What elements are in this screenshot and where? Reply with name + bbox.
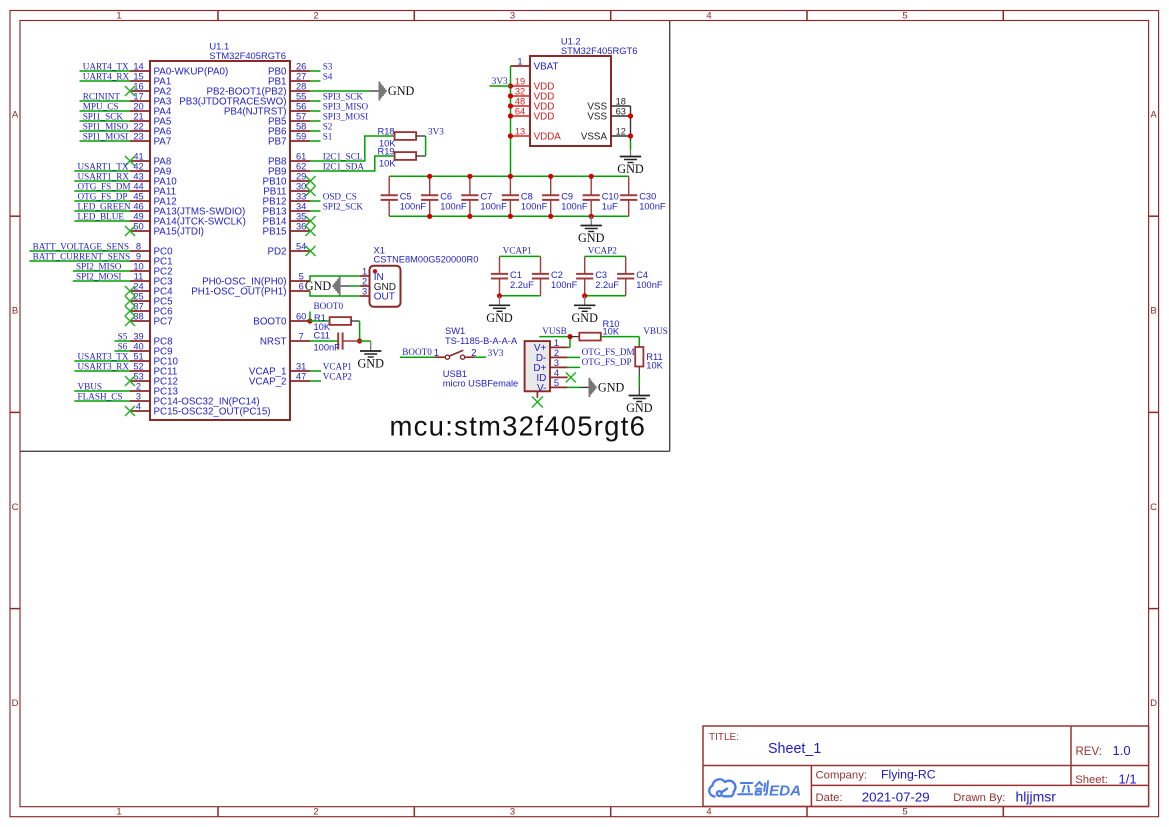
svg-text:42: 42 — [133, 161, 143, 171]
svg-text:C3: C3 — [595, 270, 607, 280]
svg-text:2: 2 — [136, 381, 141, 391]
svg-text:19: 19 — [515, 76, 525, 86]
svg-text:GND: GND — [305, 279, 332, 293]
svg-text:GND: GND — [571, 311, 598, 325]
svg-text:7: 7 — [299, 331, 304, 341]
svg-text:56: 56 — [296, 101, 306, 111]
svg-text:PB15: PB15 — [263, 226, 288, 237]
svg-text:100nF: 100nF — [314, 343, 341, 353]
svg-text:USART1_TX: USART1_TX — [78, 161, 129, 171]
svg-text:5: 5 — [554, 378, 559, 388]
svg-text:3V3: 3V3 — [428, 126, 444, 136]
svg-text:D: D — [1150, 698, 1157, 709]
svg-text:3: 3 — [362, 286, 367, 296]
svg-text:2.2uF: 2.2uF — [510, 280, 534, 290]
svg-text:SPI2_SCK: SPI2_SCK — [323, 201, 364, 211]
svg-text:Company:: Company: — [816, 769, 868, 781]
svg-text:54: 54 — [296, 241, 306, 251]
svg-text:1/1: 1/1 — [1119, 771, 1137, 786]
svg-text:52: 52 — [133, 361, 143, 371]
svg-text:S4: S4 — [323, 71, 333, 81]
svg-text:PC15-OSC32_OUT(PC15): PC15-OSC32_OUT(PC15) — [154, 406, 271, 417]
svg-text:STM32F405RGT6: STM32F405RGT6 — [209, 50, 286, 61]
svg-text:Sheet_1: Sheet_1 — [768, 741, 821, 757]
svg-text:C2: C2 — [551, 270, 563, 280]
svg-text:RCININT: RCININT — [83, 91, 121, 101]
svg-text:62: 62 — [296, 161, 306, 171]
svg-text:10: 10 — [133, 261, 143, 271]
svg-text:3: 3 — [554, 358, 559, 368]
svg-text:USART3_TX: USART3_TX — [78, 351, 129, 361]
svg-text:BATT_CURRENT_SENS: BATT_CURRENT_SENS — [33, 251, 131, 261]
svg-text:C10: C10 — [602, 191, 619, 201]
svg-text:21: 21 — [133, 111, 143, 121]
svg-text:PA15(JTDI): PA15(JTDI) — [154, 226, 204, 237]
svg-text:30: 30 — [296, 181, 306, 191]
svg-text:PA7: PA7 — [154, 136, 172, 147]
svg-text:GND: GND — [617, 162, 644, 176]
svg-text:A: A — [12, 109, 19, 120]
svg-text:11: 11 — [134, 271, 144, 281]
svg-text:28: 28 — [296, 81, 306, 91]
svg-text:SPI3_MISO: SPI3_MISO — [323, 101, 369, 111]
svg-text:OTG_FS_DM: OTG_FS_DM — [78, 181, 131, 191]
svg-text:S1: S1 — [323, 131, 333, 141]
svg-text:40: 40 — [133, 341, 143, 351]
svg-text:OTG_FS_DP: OTG_FS_DP — [582, 357, 632, 367]
svg-text:39: 39 — [133, 331, 143, 341]
svg-text:34: 34 — [296, 201, 306, 211]
svg-text:22: 22 — [133, 121, 143, 131]
svg-text:USB1: USB1 — [443, 369, 467, 379]
svg-text:47: 47 — [296, 371, 306, 381]
svg-text:27: 27 — [296, 71, 306, 81]
svg-text:36: 36 — [296, 221, 306, 231]
svg-text:REV:: REV: — [1076, 746, 1102, 758]
svg-text:17: 17 — [133, 91, 143, 101]
svg-text:48: 48 — [515, 96, 525, 106]
svg-text:PC7: PC7 — [154, 316, 173, 327]
svg-text:2.2uF: 2.2uF — [595, 280, 619, 290]
svg-text:6: 6 — [299, 281, 304, 291]
svg-text:VSS: VSS — [587, 111, 607, 122]
svg-text:26: 26 — [296, 61, 306, 71]
svg-text:SPI1_SCK: SPI1_SCK — [83, 111, 124, 121]
svg-text:3V3: 3V3 — [488, 348, 504, 358]
svg-text:BOOT0: BOOT0 — [253, 316, 287, 327]
svg-text:1: 1 — [554, 338, 559, 348]
svg-text:OTG_FS_DP: OTG_FS_DP — [78, 191, 128, 201]
svg-text:4: 4 — [706, 807, 711, 818]
svg-text:VBAT: VBAT — [534, 61, 559, 72]
svg-text:5: 5 — [299, 271, 304, 281]
svg-text:C: C — [1150, 502, 1157, 513]
svg-text:mcu:stm32f405rgt6: mcu:stm32f405rgt6 — [390, 410, 647, 441]
svg-text:15: 15 — [133, 71, 143, 81]
svg-text:46: 46 — [133, 201, 143, 211]
svg-text:VCAP_2: VCAP_2 — [249, 376, 287, 387]
svg-text:FLASH_CS: FLASH_CS — [78, 391, 123, 401]
svg-text:100nF: 100nF — [551, 280, 578, 290]
svg-text:SPI1_MOSI: SPI1_MOSI — [83, 131, 128, 141]
svg-text:3: 3 — [510, 10, 515, 21]
svg-text:57: 57 — [296, 111, 306, 121]
svg-text:OUT: OUT — [374, 291, 395, 302]
svg-text:I2C1_SCL: I2C1_SCL — [323, 151, 363, 161]
svg-text:59: 59 — [296, 131, 306, 141]
svg-text:C6: C6 — [440, 191, 452, 201]
svg-text:C4: C4 — [636, 270, 648, 280]
svg-text:GND: GND — [388, 84, 415, 98]
svg-text:2: 2 — [313, 807, 318, 818]
svg-text:2: 2 — [313, 10, 318, 21]
svg-text:5: 5 — [902, 807, 907, 818]
svg-text:2021-07-29: 2021-07-29 — [862, 789, 930, 804]
svg-text:5: 5 — [902, 10, 907, 21]
svg-text:VCAP1: VCAP1 — [323, 361, 353, 371]
svg-text:9: 9 — [136, 251, 141, 261]
svg-text:GND: GND — [578, 231, 605, 245]
svg-text:60: 60 — [296, 311, 306, 321]
svg-text:C9: C9 — [561, 191, 573, 201]
svg-text:I2C1_SDA: I2C1_SDA — [323, 161, 365, 171]
svg-text:43: 43 — [133, 171, 143, 181]
svg-text:C7: C7 — [480, 191, 492, 201]
svg-text:1: 1 — [116, 10, 121, 21]
svg-text:44: 44 — [133, 181, 143, 191]
svg-text:31: 31 — [296, 361, 306, 371]
svg-text:S3: S3 — [323, 61, 333, 71]
svg-text:33: 33 — [296, 191, 306, 201]
svg-text:1: 1 — [517, 56, 522, 66]
svg-text:58: 58 — [296, 121, 306, 131]
svg-text:SPI2_MOSI: SPI2_MOSI — [76, 271, 121, 281]
svg-text:V-: V- — [537, 383, 546, 394]
svg-text:UART4_TX: UART4_TX — [83, 61, 129, 71]
svg-text:63: 63 — [616, 106, 626, 116]
svg-text:1uF: 1uF — [602, 201, 618, 211]
svg-text:C: C — [12, 502, 19, 513]
svg-text:VBUS: VBUS — [78, 381, 103, 391]
svg-text:C11: C11 — [314, 331, 330, 341]
svg-text:61: 61 — [296, 151, 306, 161]
svg-text:A: A — [1150, 109, 1157, 120]
svg-text:S6: S6 — [118, 341, 128, 351]
svg-text:hljjmsr: hljjmsr — [1016, 788, 1057, 804]
svg-text:Drawn By:: Drawn By: — [953, 792, 1005, 804]
svg-text:USART3_RX: USART3_RX — [78, 361, 130, 371]
svg-text:OSD_CS: OSD_CS — [323, 191, 357, 201]
svg-text:12: 12 — [616, 126, 626, 136]
svg-text:100nF: 100nF — [636, 280, 663, 290]
svg-text:B: B — [1150, 305, 1156, 316]
svg-text:SPI2_MISO: SPI2_MISO — [76, 261, 122, 271]
svg-text:CSTNE8M00G520000R0: CSTNE8M00G520000R0 — [374, 255, 479, 265]
svg-text:35: 35 — [296, 211, 306, 221]
svg-text:C1: C1 — [510, 270, 522, 280]
svg-text:10K: 10K — [603, 326, 620, 336]
svg-text:GND: GND — [357, 357, 384, 371]
svg-text:64: 64 — [515, 106, 525, 116]
svg-text:R18: R18 — [378, 127, 395, 137]
svg-text:2: 2 — [362, 276, 367, 286]
svg-text:GND: GND — [486, 311, 513, 325]
svg-text:1.0: 1.0 — [1113, 743, 1131, 758]
svg-text:STM32F405RGT6: STM32F405RGT6 — [561, 45, 638, 56]
svg-text:BATT_VOLTAGE_SENS: BATT_VOLTAGE_SENS — [33, 241, 129, 251]
svg-text:BOOT0: BOOT0 — [314, 301, 344, 311]
svg-text:4: 4 — [554, 368, 559, 378]
svg-text:2: 2 — [554, 348, 559, 358]
svg-text:29: 29 — [296, 171, 306, 181]
svg-text:VCAP2: VCAP2 — [323, 371, 353, 381]
svg-text:100nF: 100nF — [480, 201, 507, 211]
svg-text:100nF: 100nF — [639, 201, 666, 211]
svg-text:VDDA: VDDA — [534, 131, 562, 142]
svg-text:100nF: 100nF — [400, 201, 427, 211]
svg-text:USART1_RX: USART1_RX — [78, 171, 130, 181]
svg-text:BOOT0: BOOT0 — [402, 347, 432, 357]
svg-text:100nF: 100nF — [521, 201, 548, 211]
svg-text:13: 13 — [515, 126, 525, 136]
svg-text:SPI3_SCK: SPI3_SCK — [323, 91, 364, 101]
svg-text:TITLE:: TITLE: — [709, 732, 739, 743]
svg-text:C30: C30 — [639, 191, 656, 201]
svg-text:23: 23 — [133, 131, 143, 141]
svg-text:R19: R19 — [378, 147, 395, 157]
svg-text:PD2: PD2 — [267, 246, 286, 257]
svg-text:3V3: 3V3 — [492, 76, 508, 86]
svg-text:Sheet:: Sheet: — [1075, 774, 1108, 786]
svg-text:Flying-RC: Flying-RC — [881, 767, 936, 781]
svg-text:S5: S5 — [118, 331, 128, 341]
svg-text:UART4_RX: UART4_RX — [83, 71, 130, 81]
svg-text:PH1-OSC_OUT(PH1): PH1-OSC_OUT(PH1) — [191, 286, 286, 297]
svg-text:PB7: PB7 — [268, 136, 287, 147]
svg-text:NRST: NRST — [260, 336, 287, 347]
svg-text:MPU_CS: MPU_CS — [83, 101, 119, 111]
svg-text:10K: 10K — [379, 159, 396, 169]
svg-text:55: 55 — [296, 91, 306, 101]
svg-text:100nF: 100nF — [440, 201, 467, 211]
svg-text:14: 14 — [133, 61, 143, 71]
svg-text:TS-1185-B-A-A-A: TS-1185-B-A-A-A — [445, 336, 518, 346]
svg-text:1: 1 — [116, 807, 121, 818]
svg-text:8: 8 — [136, 241, 141, 251]
svg-text:GND: GND — [598, 381, 625, 395]
svg-text:OTG_FS_DM: OTG_FS_DM — [582, 347, 635, 357]
svg-text:18: 18 — [616, 96, 626, 106]
svg-text:4: 4 — [136, 401, 141, 411]
svg-text:VCAP1: VCAP1 — [503, 245, 533, 255]
svg-text:VDD: VDD — [534, 111, 555, 122]
svg-text:20: 20 — [133, 101, 143, 111]
svg-text:C8: C8 — [521, 191, 533, 201]
svg-text:SPI3_MOSI: SPI3_MOSI — [323, 111, 368, 121]
svg-text:EDA: EDA — [769, 782, 801, 799]
svg-text:49: 49 — [133, 211, 143, 221]
svg-text:micro USBFemale: micro USBFemale — [443, 379, 518, 389]
svg-text:51: 51 — [133, 351, 143, 361]
svg-text:LED_BLUE: LED_BLUE — [78, 211, 125, 221]
svg-text:B: B — [12, 305, 18, 316]
svg-text:VUSB: VUSB — [542, 326, 567, 336]
svg-text:3: 3 — [136, 391, 141, 401]
svg-text:VSSA: VSSA — [581, 131, 608, 142]
svg-text:1: 1 — [362, 266, 367, 276]
svg-text:SW1: SW1 — [445, 326, 465, 336]
svg-text:10K: 10K — [646, 360, 663, 370]
svg-text:VCAP2: VCAP2 — [588, 245, 618, 255]
svg-text:4: 4 — [706, 10, 711, 21]
svg-text:32: 32 — [515, 86, 525, 96]
svg-text:SPI1_MISO: SPI1_MISO — [83, 121, 129, 131]
svg-text:LED_GREEN: LED_GREEN — [78, 201, 131, 211]
svg-text:VBUS: VBUS — [643, 326, 668, 336]
svg-text:3: 3 — [510, 807, 515, 818]
svg-text:Date:: Date: — [816, 792, 843, 804]
svg-text:45: 45 — [133, 191, 143, 201]
svg-text:C5: C5 — [400, 191, 412, 201]
svg-text:S2: S2 — [323, 121, 333, 131]
svg-text:D: D — [12, 698, 19, 709]
svg-text:100nF: 100nF — [561, 201, 588, 211]
